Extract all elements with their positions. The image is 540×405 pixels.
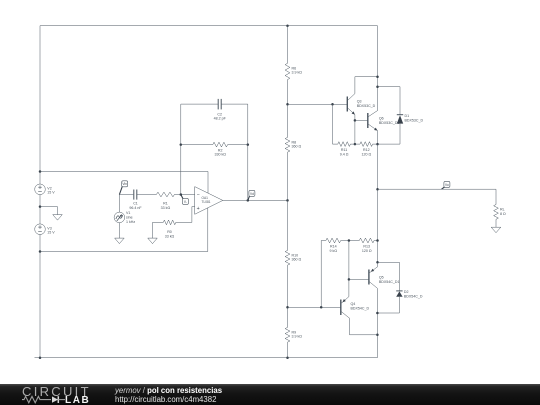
label V2 15 V: [47, 187, 55, 195]
wire Q4 base run: [288, 306, 341, 308]
label C2 48.2 pF: [214, 112, 227, 120]
wire Q3 emitter leg: [354, 115, 356, 145]
wire +15V top rail: [40, 25, 378, 27]
node Q6 base tap: [354, 119, 357, 122]
wire D1 anode run: [378, 143, 401, 145]
wire feedback top run left: [181, 103, 218, 105]
label R11 9.4: [340, 148, 349, 156]
wire V2 to ground node: [39, 195, 41, 207]
capacitor C2: [218, 99, 221, 110]
voltage source V3: [35, 207, 46, 235]
label R6 3.9 k: [292, 66, 303, 74]
wire left -15V rail: [39, 252, 41, 358]
resistor R9: [285, 327, 290, 342]
svg-text:330 kΩ: 330 kΩ: [214, 153, 226, 157]
svg-text:Vin: Vin: [122, 182, 127, 186]
svg-text:9.4 Ω: 9.4 Ω: [340, 152, 349, 156]
svg-text:BDX53C_D: BDX53C_D: [357, 104, 376, 108]
svg-text:360 Ω: 360 Ω: [292, 258, 302, 262]
wire R11 to R12: [350, 143, 360, 145]
wire RL to ground: [495, 219, 497, 227]
svg-text:96.4 nF: 96.4 nF: [129, 206, 142, 210]
svg-text:V1: V1: [126, 211, 130, 215]
label R8 360: [292, 140, 302, 148]
transistor Q5: [369, 267, 378, 289]
transistor Q4: [341, 297, 350, 319]
label R2 330 k: [214, 148, 226, 156]
wire Q5 base run: [349, 278, 369, 280]
wire R6 to R8: [287, 80, 289, 138]
node feedback tap on output: [247, 199, 250, 202]
wire to supply ground: [40, 207, 58, 215]
node D2 anode junction: [376, 312, 379, 315]
resistor R11: [338, 142, 351, 147]
resistor R13: [359, 238, 374, 243]
op-amp OA1 TL081: [195, 187, 223, 215]
label R0 33 k: [165, 230, 175, 238]
svg-text:120 Ω: 120 Ω: [361, 152, 371, 156]
label Q3 BDX53C_D: [357, 99, 376, 108]
wire R10 to R9: [287, 265, 289, 327]
svg-text:V-: V-: [184, 200, 187, 204]
wire Q6 emitter leg: [377, 131, 379, 145]
svg-text:D2: D2: [404, 290, 409, 294]
node mid-supply ground junction: [39, 205, 42, 208]
wire R2 right lead: [228, 144, 248, 146]
node D2 junction: [376, 261, 379, 264]
label Q4 BDX54C_D: [351, 302, 370, 311]
wire ground to R0: [153, 222, 164, 238]
label V3 15 V: [47, 227, 55, 235]
label RL 8: [500, 208, 506, 216]
svg-text:3.9 kΩ: 3.9 kΩ: [292, 71, 303, 75]
node R14-R13 emitter junction: [348, 239, 351, 242]
wire feedback top run right: [221, 104, 248, 200]
wire R8 to R10: [287, 152, 289, 250]
node R2 left junction: [180, 143, 183, 146]
resistor R10: [285, 250, 290, 265]
flag Vd: [248, 190, 255, 200]
svg-text:1 kHz: 1 kHz: [126, 220, 135, 224]
wire V3 to -rail: [39, 235, 41, 252]
svg-text:9 kΩ: 9 kΩ: [330, 249, 338, 253]
svg-text:33 kΩ: 33 kΩ: [165, 235, 175, 239]
wire feedback left leg: [180, 104, 182, 194]
node top-rail / bias-chain junction: [286, 24, 289, 27]
ground supply midpoint: [53, 215, 63, 221]
label Q6 BDX53C_D1: [379, 116, 400, 125]
wire op-amp V- supply run: [40, 208, 208, 252]
wire D1 cathode run: [378, 86, 401, 88]
wire Q6 base run: [355, 119, 368, 121]
footer url line: [115, 395, 216, 404]
node op-amp V+ supply tap: [39, 170, 42, 173]
wire Vin corner: [119, 195, 133, 213]
label R14 9 k: [330, 245, 338, 253]
svg-text:−: −: [197, 192, 200, 198]
wire D2 cathode run: [378, 261, 400, 263]
wire Q4 collector leg: [350, 318, 378, 335]
wire R1 to inverting input: [174, 194, 194, 196]
svg-text:BDX53C_D1: BDX53C_D1: [379, 121, 400, 125]
svg-text:BDX53C_D: BDX53C_D: [405, 119, 424, 123]
wire Q4 emitter leg: [348, 241, 350, 297]
wire op-amp output: [223, 199, 288, 201]
wire R2 left lead: [181, 144, 213, 146]
wire Q5 collector leg: [376, 288, 378, 357]
node bottom rail / bias chain: [286, 356, 289, 359]
label D2 BDX54C_D: [404, 290, 423, 299]
resistor R8: [285, 137, 290, 152]
resistor R2: [213, 142, 228, 147]
svg-text:15 V: 15 V: [47, 230, 55, 234]
ground V1: [115, 238, 125, 244]
svg-text:Q4: Q4: [351, 302, 356, 306]
wire right +15V drop: [377, 26, 379, 111]
label D1 BDX53C_D: [405, 114, 424, 123]
voltage source V1 sine: [114, 212, 125, 223]
resistor R14: [326, 238, 341, 243]
wire R11 left leg: [333, 104, 338, 144]
node Vo tap: [376, 188, 379, 191]
CircuitLab logo word LAB: [65, 395, 90, 405]
svg-text:33 kΩ: 33 kΩ: [161, 206, 171, 210]
node Q5 base tap: [348, 278, 351, 281]
svg-text:sine: sine: [126, 216, 133, 220]
svg-text:+: +: [197, 206, 200, 212]
label Q5 BDX54C_D1: [379, 275, 400, 284]
svg-text:3.9 kΩ: 3.9 kΩ: [292, 335, 303, 339]
flag V-: [181, 195, 189, 205]
transistor Q6: [368, 111, 379, 132]
wire Q3 collector to rail: [355, 77, 378, 94]
wire Q5 emitter leg: [377, 262, 379, 267]
svg-text:48.2 pF: 48.2 pF: [214, 116, 227, 120]
svg-text:15 V: 15 V: [47, 190, 55, 194]
wire left +15V rail: [39, 26, 41, 184]
node bottom-left corner: [39, 356, 42, 359]
wire Vo run: [378, 189, 497, 204]
svg-text:360 Ω: 360 Ω: [292, 145, 302, 149]
flag Vo: [442, 181, 450, 189]
ground RL: [491, 227, 501, 233]
svg-text:Vo: Vo: [445, 183, 449, 187]
node Q3 collector junction: [376, 75, 379, 78]
node lower base tap: [286, 306, 289, 309]
node output top junction: [376, 143, 379, 146]
wire C1 to R1: [141, 194, 156, 196]
wire R14 to R13: [341, 240, 360, 242]
resistor R6: [285, 63, 290, 79]
CircuitLab logo word CIRCUIT: [22, 384, 91, 399]
resistor R0: [163, 220, 175, 225]
flag Vin: [119, 181, 127, 195]
node output bottom junction: [376, 239, 379, 242]
svg-text:D1: D1: [405, 114, 410, 118]
svg-text:Vd: Vd: [250, 192, 254, 196]
node op-amp output on bias chain: [286, 199, 289, 202]
label R10 360: [292, 253, 302, 261]
svg-text:8 Ω: 8 Ω: [500, 212, 506, 216]
svg-text:Q6: Q6: [379, 116, 384, 120]
node R2 right junction: [247, 143, 250, 146]
voltage source V2: [35, 184, 46, 195]
label C1 96.4 nF: [129, 202, 142, 210]
label R1 33 k: [161, 202, 171, 210]
footer title line: [115, 386, 222, 395]
node D1 junction: [376, 85, 379, 88]
svg-text:BDX54C_D: BDX54C_D: [404, 294, 423, 298]
diode D1: [397, 87, 403, 144]
footer bar: [0, 384, 540, 405]
diode D2: [396, 262, 402, 313]
wire R13 to output node: [374, 240, 377, 242]
node R11-R12 emitter junction: [354, 143, 357, 146]
resistor R1: [156, 192, 174, 197]
node R14 bottom tap: [320, 306, 323, 309]
node R11 top tap: [331, 103, 334, 106]
node -15V tap: [39, 250, 42, 253]
svg-text:120 Ω: 120 Ω: [362, 249, 372, 253]
svg-text:Q3: Q3: [357, 99, 362, 103]
svg-text:BDX54C_D1: BDX54C_D1: [379, 280, 400, 284]
label V1 sine 1 kHz: [126, 211, 135, 224]
label R12 120: [361, 148, 371, 156]
node inverting input: [180, 193, 183, 196]
svg-text:TL081: TL081: [202, 200, 211, 204]
label R9 3.9 k: [292, 330, 303, 338]
node upper base tap: [286, 103, 289, 106]
label R13 120: [362, 245, 372, 253]
wire R12 to output node: [373, 143, 378, 145]
capacitor C1: [133, 190, 141, 200]
wire R0 to non-inverting input: [176, 207, 195, 223]
wire -15V bottom rail: [35, 357, 378, 359]
ground R0: [148, 238, 158, 244]
node Q4 collector junction: [376, 334, 379, 337]
wire bias chain top: [287, 26, 289, 64]
wire output column: [377, 144, 379, 262]
wire R14 left leg: [321, 241, 326, 308]
wire op-amp V+ supply run: [40, 172, 208, 194]
wire Q3 base run: [288, 103, 348, 105]
resistor RL: [494, 205, 499, 220]
svg-text:BDX54C_D: BDX54C_D: [351, 307, 370, 311]
svg-text:Q5: Q5: [379, 275, 384, 279]
wire D2 anode run: [377, 312, 399, 314]
resistor R12: [360, 142, 373, 147]
transistor Q3: [347, 94, 356, 116]
wire V1 to ground: [118, 223, 120, 238]
wire R9 to bottom rail: [287, 342, 289, 358]
CircuitLab logo resistor-diode glyph: [22, 395, 68, 405]
